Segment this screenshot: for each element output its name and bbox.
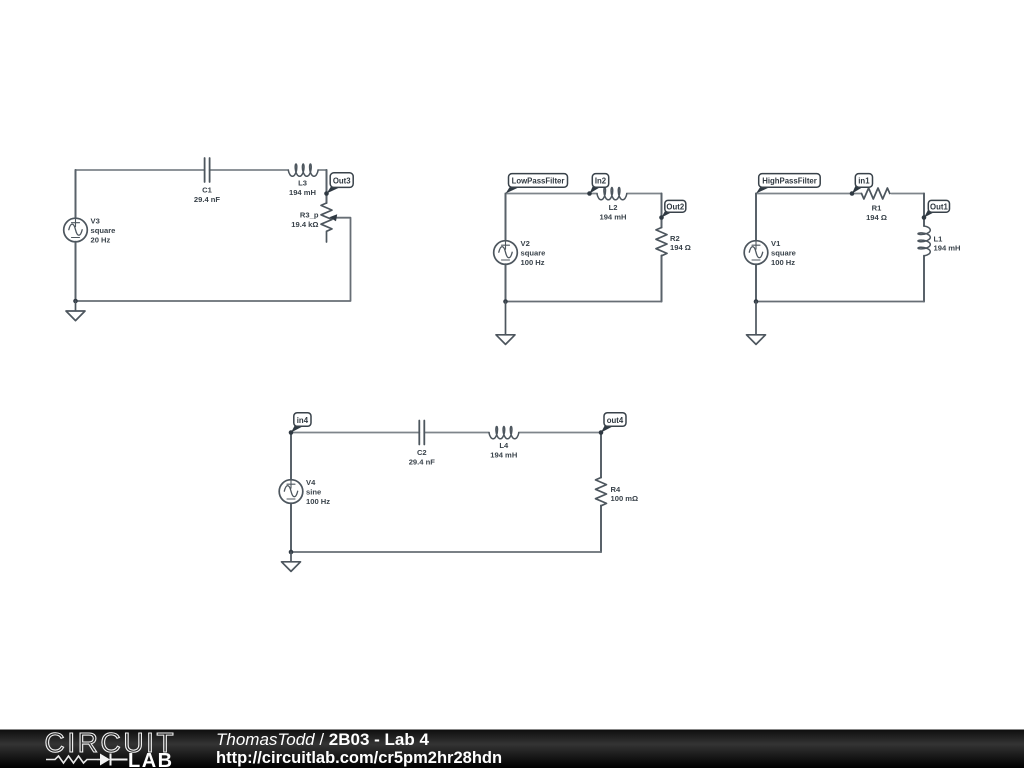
svg-text:LowPassFilter: LowPassFilter <box>512 177 565 186</box>
logo diode <box>97 759 100 761</box>
svg-text:In2: In2 <box>595 177 607 186</box>
svg-text:LAB: LAB <box>128 750 174 768</box>
node Out1 flag <box>924 210 936 218</box>
wire left vertical V1 <box>755 194 757 302</box>
junction dot Out1 <box>922 215 927 220</box>
voltage source V3 <box>64 218 88 242</box>
svg-text:out4: out4 <box>607 416 624 425</box>
svg-text:194 mH: 194 mH <box>934 244 961 253</box>
svg-text:Out2: Out2 <box>666 202 684 211</box>
svg-text:V3: V3 <box>91 217 100 226</box>
capacitor C1 <box>205 158 210 182</box>
inductor L2 <box>597 188 627 200</box>
svg-text:Out3: Out3 <box>333 176 351 185</box>
junction dot in1 <box>850 191 855 196</box>
node Out3 flag <box>327 186 341 194</box>
junction dot ground 1 <box>73 299 78 304</box>
node Out2 flag <box>662 210 674 218</box>
node out4 flag <box>601 425 613 433</box>
voltage source V1 <box>744 241 768 265</box>
junction dot ground 2 <box>503 299 508 304</box>
svg-text:square: square <box>771 249 796 258</box>
resistor R4 <box>596 478 607 506</box>
svg-text:29.4 nF: 29.4 nF <box>194 195 221 204</box>
wire V3 bottom to rail <box>75 242 77 301</box>
junction dot ground 4 <box>289 550 294 555</box>
svg-text:100 Hz: 100 Hz <box>521 258 545 267</box>
svg-text:http://circuitlab.com/cr5pm2hr: http://circuitlab.com/cr5pm2hr28hdn <box>216 749 502 767</box>
svg-text:square: square <box>91 226 116 235</box>
wire bottom rail c1 <box>76 218 351 301</box>
wire right vertical R2 <box>661 194 663 302</box>
svg-text:sine: sine <box>306 488 321 497</box>
svg-text:C1: C1 <box>202 186 212 195</box>
svg-text:R4: R4 <box>611 485 621 494</box>
svg-text:20 Hz: 20 Hz <box>91 235 111 244</box>
ground 1 <box>66 301 85 321</box>
node in1 flag <box>852 186 863 194</box>
svg-text:ThomasTodd / 2B03 - Lab 4: ThomasTodd / 2B03 - Lab 4 <box>216 730 429 749</box>
svg-text:L3: L3 <box>298 179 307 188</box>
wire top rail c3 <box>756 193 924 195</box>
svg-text:100 Hz: 100 Hz <box>771 258 795 267</box>
wire top rail c2 <box>506 193 662 195</box>
junction dot out4 <box>599 430 604 435</box>
svg-text:Out1: Out1 <box>930 202 948 211</box>
svg-text:in4: in4 <box>297 416 309 425</box>
capacitor C2 <box>419 421 424 445</box>
inductor L4 <box>489 427 519 439</box>
resistor R1 <box>862 188 890 199</box>
wire bottom rail c2 <box>506 301 662 303</box>
wire top rail c4 <box>291 432 601 434</box>
logo resistor squiggle <box>46 756 97 763</box>
svg-text:R2: R2 <box>670 234 680 243</box>
svg-text:194 mH: 194 mH <box>289 188 316 197</box>
wire right vertical L1 <box>923 194 925 302</box>
voltage source V2 <box>494 241 518 265</box>
svg-text:19.4 kΩ: 19.4 kΩ <box>291 220 318 229</box>
wire left vertical V3 top <box>75 170 77 218</box>
wire left vertical V2 <box>505 194 507 302</box>
wire right vertical R4 <box>600 433 602 553</box>
svg-text:V2: V2 <box>521 239 530 248</box>
node In2 flag <box>590 186 601 194</box>
svg-text:100 mΩ: 100 mΩ <box>611 494 639 503</box>
junction dot In2 <box>587 191 592 196</box>
ground 4 <box>282 552 301 571</box>
svg-text:L1: L1 <box>934 234 944 243</box>
potentiometer R3_p <box>321 203 332 242</box>
svg-text:HighPassFilter: HighPassFilter <box>762 177 817 186</box>
wire top rail c1 <box>76 169 327 171</box>
wire left vertical V4 <box>290 433 292 553</box>
svg-text:L4: L4 <box>499 441 509 450</box>
svg-text:V1: V1 <box>771 239 781 248</box>
wiper arrow R3_p <box>329 214 337 221</box>
svg-text:square: square <box>521 249 546 258</box>
node HighPassFilter flag <box>756 186 770 194</box>
svg-text:L2: L2 <box>609 203 618 212</box>
svg-text:194 Ω: 194 Ω <box>670 243 691 252</box>
wire R3_p branch vertical <box>326 170 328 203</box>
svg-text:R1: R1 <box>872 204 882 213</box>
svg-text:in1: in1 <box>858 177 870 186</box>
svg-text:100 Hz: 100 Hz <box>306 497 330 506</box>
junction dot Out3 <box>324 191 329 196</box>
ground 3 <box>747 302 766 345</box>
inductor L3 <box>288 164 318 176</box>
voltage source V4 <box>279 480 303 504</box>
junction dot in4 <box>289 430 294 435</box>
svg-text:R3_p: R3_p <box>300 211 319 220</box>
svg-text:29.4 nF: 29.4 nF <box>409 457 436 466</box>
wire bottom rail c4 <box>291 551 601 553</box>
svg-text:V4: V4 <box>306 478 316 487</box>
junction dot Out2 <box>659 215 664 220</box>
inductor L1 <box>918 226 930 256</box>
wire bottom rail c3 <box>756 301 924 303</box>
node in4 flag <box>291 425 303 433</box>
svg-text:194 mH: 194 mH <box>490 451 517 460</box>
resistor R2 <box>656 228 667 256</box>
node LowPassFilter flag <box>506 186 520 194</box>
svg-text:194 mH: 194 mH <box>599 213 626 222</box>
ground 2 <box>496 302 515 345</box>
junction dot ground 3 <box>754 299 759 304</box>
svg-text:194 Ω: 194 Ω <box>866 213 887 222</box>
svg-text:C2: C2 <box>417 448 427 457</box>
